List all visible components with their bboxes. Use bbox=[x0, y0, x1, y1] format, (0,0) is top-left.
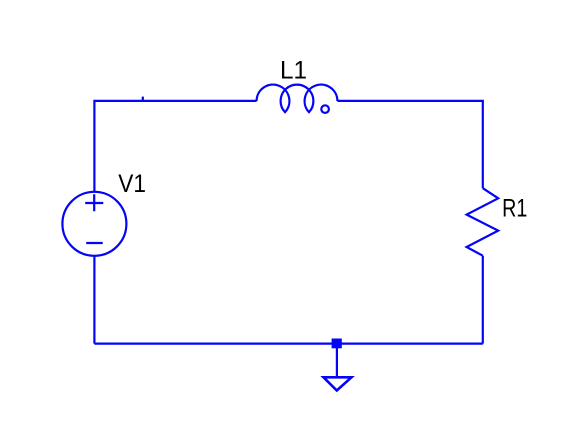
wire top-left: from top-left corner to inductor left lead bbox=[94, 101, 256, 193]
svg-text:R1: R1 bbox=[502, 194, 527, 222]
label V1 bbox=[118, 170, 146, 198]
label R1 bbox=[502, 194, 527, 222]
ground node square bbox=[332, 339, 342, 349]
wire top-right: from inductor right lead to top-right corner down to resistor bbox=[337, 101, 482, 188]
wire left-bottom: source bottom to bottom-left corner bbox=[93, 256, 95, 344]
ground stem wire bbox=[336, 348, 338, 377]
voltage source plus sign bbox=[85, 194, 103, 211]
wire stub tick on top wire bbox=[142, 97, 144, 101]
voltage source V1 circle bbox=[62, 192, 126, 256]
svg-text:V1: V1 bbox=[118, 170, 146, 198]
wire right-bottom: resistor bottom to bottom-right corner bbox=[482, 256, 484, 344]
label L1 bbox=[280, 57, 307, 84]
ground triangle bbox=[324, 377, 352, 390]
svg-text:L1: L1 bbox=[280, 57, 307, 84]
inductor phase dot bbox=[321, 105, 329, 113]
resistor R1 zigzag bbox=[467, 188, 499, 256]
voltage source minus sign bbox=[86, 242, 103, 244]
inductor L1 coil bbox=[257, 85, 338, 113]
wire bottom: bottom-right corner to bottom-left corner bbox=[94, 343, 482, 345]
